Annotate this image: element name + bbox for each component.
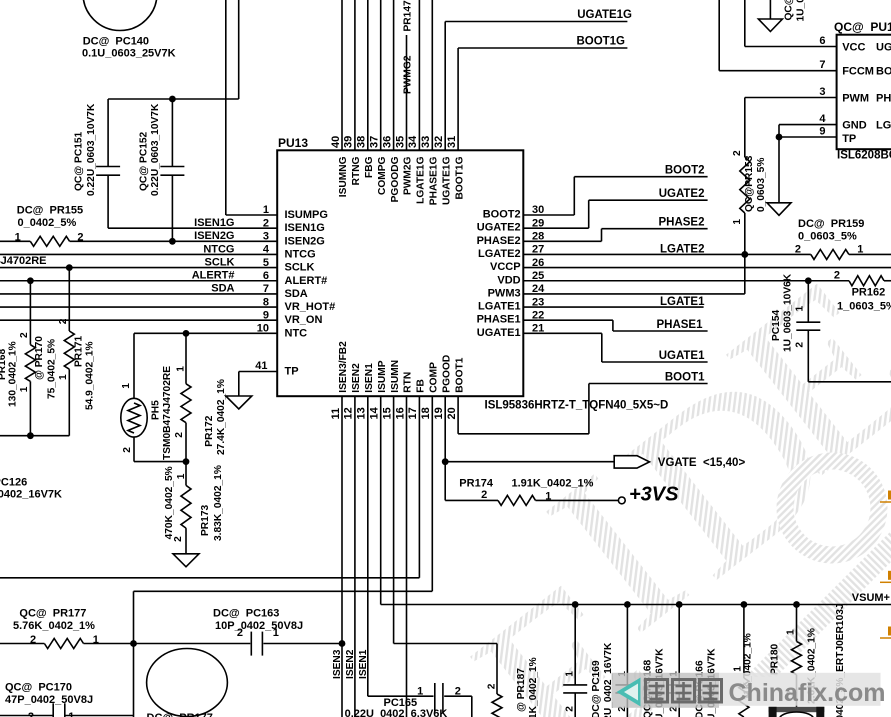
svg-text:BOOT1: BOOT1 xyxy=(665,371,705,383)
svg-text:NTC: NTC xyxy=(285,327,308,339)
svg-text:3.83K_0402_1%: 3.83K_0402_1% xyxy=(213,465,224,541)
svg-text:PR147: PR147 xyxy=(403,0,414,31)
svg-text:27.4K_0402_1%: 27.4K_0402_1% xyxy=(216,379,227,455)
svg-text:8: 8 xyxy=(263,296,269,308)
svg-text:2: 2 xyxy=(122,447,133,453)
svg-text:LGATE2: LGATE2 xyxy=(478,248,521,260)
svg-text:VSUM+: VSUM+ xyxy=(852,592,890,604)
svg-text:ISEN3: ISEN3 xyxy=(332,649,343,679)
svg-text:ISEN2G: ISEN2G xyxy=(194,230,234,242)
svg-text:2: 2 xyxy=(77,232,83,244)
svg-text:VR_ON: VR_ON xyxy=(285,314,323,326)
svg-text:ALERT#: ALERT# xyxy=(285,275,328,287)
svg-text:1: 1 xyxy=(565,671,576,677)
svg-text:11: 11 xyxy=(330,408,342,420)
svg-text:SCLK: SCLK xyxy=(205,256,235,268)
svg-text:2: 2 xyxy=(263,217,269,229)
svg-text:2: 2 xyxy=(174,432,185,438)
svg-text:UGATE2: UGATE2 xyxy=(477,222,521,234)
svg-text:36: 36 xyxy=(381,136,393,148)
svg-text:ISEN3/FB2: ISEN3/FB2 xyxy=(338,341,349,393)
svg-text:FCCM: FCCM xyxy=(842,66,874,78)
svg-text:UGATE1G: UGATE1G xyxy=(577,9,632,21)
svg-text:2: 2 xyxy=(565,706,576,712)
svg-text:PR180: PR180 xyxy=(770,644,781,675)
svg-text:QC@ PC170: QC@ PC170 xyxy=(5,682,72,694)
svg-text:2: 2 xyxy=(795,244,801,256)
svg-text:2: 2 xyxy=(237,627,243,639)
svg-text:1: 1 xyxy=(732,219,743,225)
svg-text:ISUMPG: ISUMPG xyxy=(285,209,328,221)
svg-text:ISEN1G: ISEN1G xyxy=(285,222,325,234)
svg-text:19: 19 xyxy=(433,407,445,419)
svg-text:TSM0B474J4702RE: TSM0B474J4702RE xyxy=(0,255,47,267)
svg-text:PHASE1: PHASE1 xyxy=(477,314,521,326)
svg-text:0_0603_5%: 0_0603_5% xyxy=(756,158,767,212)
svg-text:1: 1 xyxy=(176,473,187,479)
svg-text:FBG: FBG xyxy=(364,156,375,178)
svg-text:130_0402_1%: 130_0402_1% xyxy=(8,341,19,407)
svg-text:PR171: PR171 xyxy=(74,336,85,367)
svg-text:ISEN2: ISEN2 xyxy=(345,649,356,679)
svg-text:38: 38 xyxy=(356,136,368,148)
svg-text:16: 16 xyxy=(394,407,406,419)
svg-text:DC@ PR177: DC@ PR177 xyxy=(147,712,213,717)
svg-text:4: 4 xyxy=(263,244,270,256)
svg-text:47P_0402_50V8J: 47P_0402_50V8J xyxy=(5,694,93,706)
svg-text:PWM3: PWM3 xyxy=(488,287,521,299)
svg-text:PWMG2: PWMG2 xyxy=(403,55,414,94)
svg-text:BOOT2: BOOT2 xyxy=(665,165,705,177)
svg-text:DC@ PC169: DC@ PC169 xyxy=(591,660,602,717)
svg-text:QC@ PC126: QC@ PC126 xyxy=(0,477,27,489)
svg-text:18: 18 xyxy=(420,407,432,419)
svg-text:DC@ PR155: DC@ PR155 xyxy=(17,205,83,217)
svg-text:4: 4 xyxy=(819,113,826,125)
svg-text:PR172: PR172 xyxy=(204,415,215,446)
svg-text:LGATE1G: LGATE1G xyxy=(416,156,427,203)
svg-text:34: 34 xyxy=(407,135,419,148)
svg-text:BOOT1: BOOT1 xyxy=(454,357,465,392)
svg-text:3: 3 xyxy=(819,86,825,98)
svg-text:ISEN2G: ISEN2G xyxy=(285,235,325,247)
svg-text:7: 7 xyxy=(263,283,269,295)
svg-text:ISUMP: ISUMP xyxy=(377,360,388,392)
svg-text:1: 1 xyxy=(93,634,99,646)
svg-text:NTCG: NTCG xyxy=(285,248,316,260)
svg-text:2: 2 xyxy=(795,342,806,348)
svg-text:ISL6208BCRZ: ISL6208BCRZ xyxy=(837,150,891,162)
svg-text:TP: TP xyxy=(285,366,299,378)
svg-text:@ PR170: @ PR170 xyxy=(34,336,45,380)
svg-text:1: 1 xyxy=(786,629,797,635)
svg-text:VCC: VCC xyxy=(842,42,865,54)
svg-text:ISUMNG: ISUMNG xyxy=(338,156,349,197)
svg-text:ISEN1: ISEN1 xyxy=(364,363,375,393)
svg-text:ISEN1G: ISEN1G xyxy=(194,217,234,229)
svg-text:0.22U_0402_16V7K: 0.22U_0402_16V7K xyxy=(0,489,62,501)
svg-text:ISEN1: ISEN1 xyxy=(358,649,369,679)
svg-text:DC@ PR159: DC@ PR159 xyxy=(798,218,864,230)
svg-text:39: 39 xyxy=(343,136,355,148)
svg-text:QC@ PR177: QC@ PR177 xyxy=(19,608,86,620)
svg-text:LGATE: LGATE xyxy=(876,120,891,132)
svg-text:@ PR187: @ PR187 xyxy=(516,668,527,712)
svg-text:32: 32 xyxy=(433,136,445,148)
svg-text:0.1U_0603_25V7K: 0.1U_0603_25V7K xyxy=(82,48,176,60)
svg-text:5.76K_0402_1%: 5.76K_0402_1% xyxy=(13,620,95,632)
svg-text:UGATE1: UGATE1 xyxy=(659,350,705,362)
svg-text:PHASE1G: PHASE1G xyxy=(429,156,440,205)
svg-text:RTNG: RTNG xyxy=(351,156,362,185)
svg-text:1: 1 xyxy=(795,306,806,312)
svg-text:1: 1 xyxy=(15,232,21,244)
svg-text:3: 3 xyxy=(263,231,269,243)
svg-text:+3VS: +3VS xyxy=(629,484,679,506)
svg-text:COMP: COMP xyxy=(429,362,440,393)
svg-text:1: 1 xyxy=(263,204,269,216)
svg-text:UGATE: UGATE xyxy=(876,42,891,54)
svg-text:9: 9 xyxy=(263,309,269,321)
svg-text:1U_0603_10V6K: 1U_0603_10V6K xyxy=(783,273,794,352)
svg-text:VDD: VDD xyxy=(497,274,520,286)
svg-text:LGATE2: LGATE2 xyxy=(660,243,705,255)
svg-text:10P_0402_50V8J: 10P_0402_50V8J xyxy=(215,620,303,632)
svg-text:ISL95836HRTZ-T_TQFN40_5X5~D: ISL95836HRTZ-T_TQFN40_5X5~D xyxy=(485,400,669,412)
svg-text:DC@ PC140: DC@ PC140 xyxy=(83,35,149,47)
svg-text:SDA: SDA xyxy=(285,288,308,300)
svg-text:41: 41 xyxy=(255,360,267,372)
svg-text:1.91K_0402_1%: 1.91K_0402_1% xyxy=(512,478,594,490)
svg-text:0_0402_5%: 0_0402_5% xyxy=(18,217,77,229)
svg-text:1K_0402_1%: 1K_0402_1% xyxy=(528,657,539,717)
svg-text:9: 9 xyxy=(819,125,825,137)
svg-text:0_0603_5%: 0_0603_5% xyxy=(798,231,857,243)
svg-text:PR173: PR173 xyxy=(200,505,211,536)
svg-text:LGATE1: LGATE1 xyxy=(478,301,521,313)
svg-text:PC154: PC154 xyxy=(771,310,782,341)
svg-text:0.22U_0402_6.3V6K: 0.22U_0402_6.3V6K xyxy=(345,708,448,717)
svg-text:NTCG: NTCG xyxy=(203,243,234,255)
svg-text:BOOT1G: BOOT1G xyxy=(454,156,465,199)
svg-text:54.9_0402_1%: 54.9_0402_1% xyxy=(85,341,96,410)
svg-text:1: 1 xyxy=(417,685,423,697)
svg-text:0.22U_0603_10V7K: 0.22U_0603_10V7K xyxy=(86,103,97,196)
svg-text:TSM0B474J4702RE: TSM0B474J4702RE xyxy=(162,366,173,460)
svg-text:PH5: PH5 xyxy=(151,400,162,420)
svg-text:1: 1 xyxy=(857,244,863,256)
svg-text:40: 40 xyxy=(330,136,342,148)
svg-text:37: 37 xyxy=(369,136,381,148)
svg-text:1U_0603_10V6K: 1U_0603_10V6K xyxy=(796,0,807,22)
svg-text:35: 35 xyxy=(394,136,406,148)
svg-text:470K_0402_5%: 470K_0402_5% xyxy=(164,466,175,539)
svg-text:PHASE1: PHASE1 xyxy=(656,319,703,331)
svg-text:DC@ PC163: DC@ PC163 xyxy=(213,608,279,620)
svg-text:QC@ PC151: QC@ PC151 xyxy=(74,131,85,191)
svg-text:2: 2 xyxy=(834,270,840,282)
svg-text:15: 15 xyxy=(381,407,393,419)
svg-text:COMPG: COMPG xyxy=(377,156,388,195)
svg-text:2: 2 xyxy=(19,332,30,338)
svg-text:QC@ PC152: QC@ PC152 xyxy=(139,131,150,191)
svg-text:VGATE <15,40>: VGATE <15,40> xyxy=(658,457,746,469)
svg-text:Chinafix.com: Chinafix.com xyxy=(729,679,886,707)
svg-text:PWM: PWM xyxy=(842,93,869,105)
svg-text:BOOT2: BOOT2 xyxy=(483,209,521,221)
svg-text:75_0402_5%: 75_0402_5% xyxy=(47,339,58,399)
svg-text:1: 1 xyxy=(58,374,69,380)
svg-text:BOOT: BOOT xyxy=(876,66,891,78)
svg-text:UGATE2: UGATE2 xyxy=(659,188,705,200)
svg-text:SCLK: SCLK xyxy=(285,262,315,274)
svg-text:1: 1 xyxy=(19,386,30,392)
svg-text:33: 33 xyxy=(420,136,432,148)
svg-text:2: 2 xyxy=(58,318,69,324)
svg-text:QC@PR153: QC@PR153 xyxy=(744,155,755,212)
svg-text:VR_HOT#: VR_HOT# xyxy=(285,301,336,313)
svg-text:1: 1 xyxy=(545,491,551,503)
svg-text:UGATE1: UGATE1 xyxy=(477,327,521,339)
svg-text:ISUMN: ISUMN xyxy=(390,360,401,393)
svg-text:QC@ PC149: QC@ PC149 xyxy=(784,0,795,21)
svg-text:SDA: SDA xyxy=(211,283,234,295)
svg-text:LGATE1: LGATE1 xyxy=(660,296,705,308)
svg-text:0.22U_0603_10V7K: 0.22U_0603_10V7K xyxy=(150,103,161,196)
svg-text:1: 1 xyxy=(273,627,279,639)
svg-text:ALERT#: ALERT# xyxy=(192,270,235,282)
svg-text:2: 2 xyxy=(481,489,487,501)
svg-text:13: 13 xyxy=(356,407,368,419)
svg-text:PU13: PU13 xyxy=(278,136,308,150)
svg-text:10: 10 xyxy=(257,323,269,335)
svg-text:6: 6 xyxy=(263,270,269,282)
svg-text:FB: FB xyxy=(416,379,427,393)
svg-text:1: 1 xyxy=(68,711,74,717)
svg-text:5: 5 xyxy=(263,257,269,269)
svg-text:PHASE2: PHASE2 xyxy=(477,235,521,247)
svg-text:2: 2 xyxy=(30,634,36,646)
svg-text:QC@ PU15: QC@ PU15 xyxy=(834,20,891,34)
svg-text:PWM2G: PWM2G xyxy=(403,156,414,195)
svg-text:2: 2 xyxy=(732,150,743,156)
svg-text:PHASE: PHASE xyxy=(876,93,891,105)
svg-text:1: 1 xyxy=(121,383,132,389)
svg-text:PGOOD: PGOOD xyxy=(441,355,452,393)
svg-text:PGOODG: PGOODG xyxy=(390,156,401,202)
svg-text:BOOT1G: BOOT1G xyxy=(576,36,625,48)
svg-text:UGATE1G: UGATE1G xyxy=(441,156,452,205)
svg-text:12: 12 xyxy=(343,407,355,419)
svg-text:2: 2 xyxy=(455,685,461,697)
svg-text:1: 1 xyxy=(176,366,187,372)
svg-text:PR162: PR162 xyxy=(852,287,886,299)
svg-text:PR174: PR174 xyxy=(459,478,494,490)
svg-text:17: 17 xyxy=(407,407,419,419)
svg-text:1_0603_5%: 1_0603_5% xyxy=(837,301,891,313)
svg-text:20: 20 xyxy=(446,407,458,419)
svg-text:31: 31 xyxy=(446,136,458,148)
svg-text:7: 7 xyxy=(819,59,825,71)
svg-text:GND: GND xyxy=(842,120,867,132)
svg-text:RTN: RTN xyxy=(403,372,414,393)
svg-text:PHASE2: PHASE2 xyxy=(658,217,704,229)
svg-text:6: 6 xyxy=(819,35,825,47)
svg-text:VCCP: VCCP xyxy=(490,261,521,273)
svg-text:TP: TP xyxy=(842,133,856,145)
svg-text:2: 2 xyxy=(28,711,34,717)
svg-text:2: 2 xyxy=(487,683,498,689)
svg-text:ISEN2: ISEN2 xyxy=(351,363,362,393)
svg-text:14: 14 xyxy=(369,406,381,419)
